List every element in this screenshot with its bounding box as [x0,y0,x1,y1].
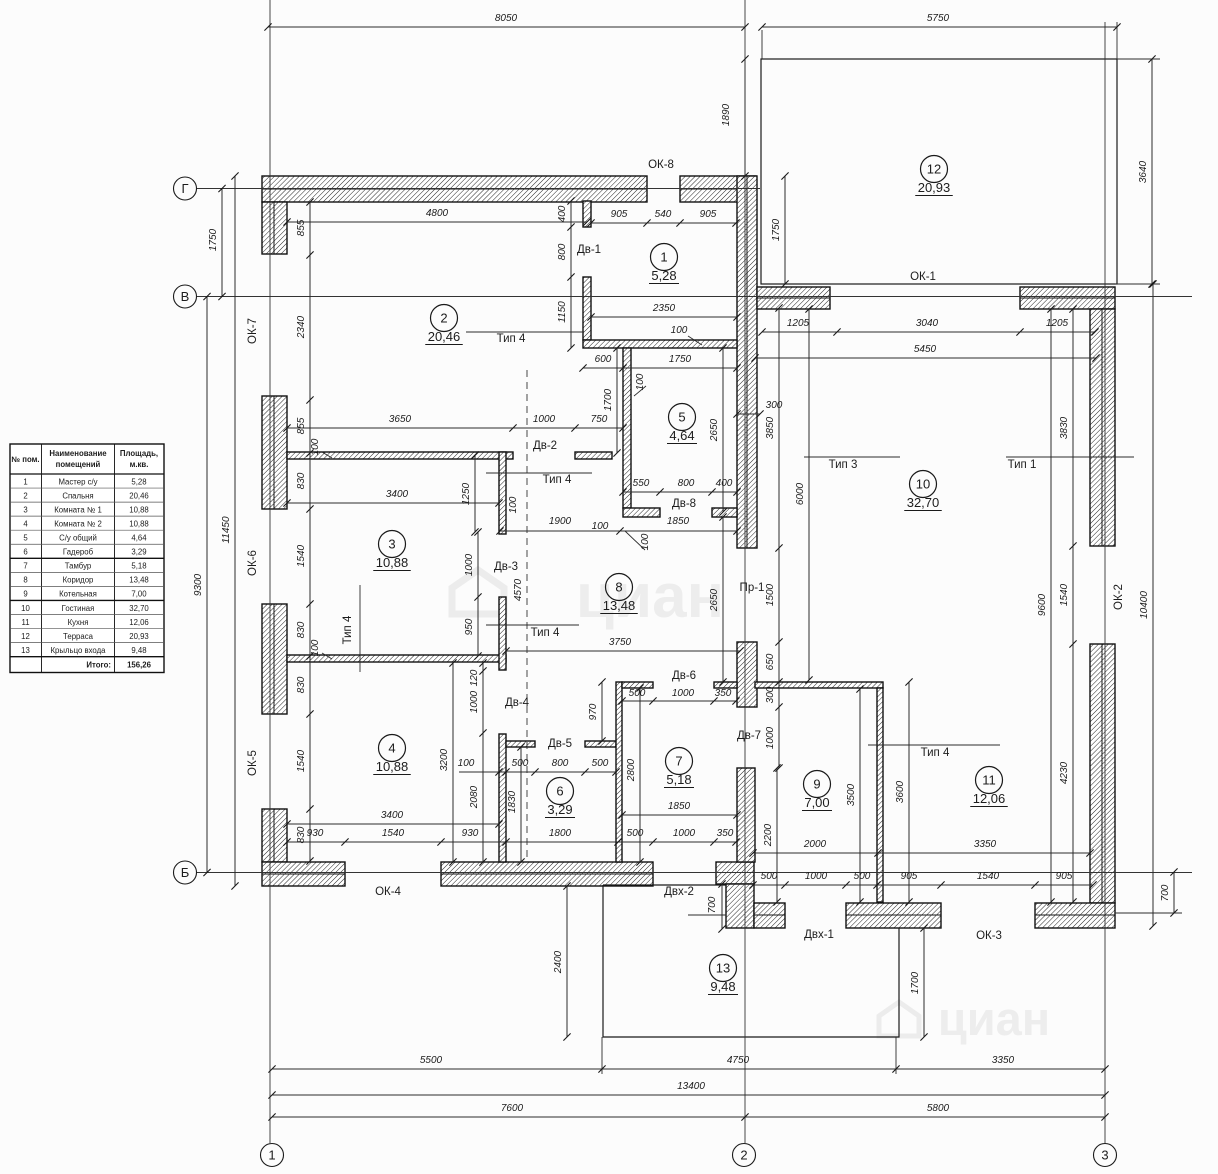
svg-text:800: 800 [557,243,568,260]
svg-text:700: 700 [1160,884,1171,901]
svg-text:Гостиная: Гостиная [62,604,95,613]
svg-text:ОК-4: ОК-4 [375,886,401,898]
svg-text:2650: 2650 [709,418,720,442]
svg-text:1: 1 [660,250,667,265]
svg-text:11450: 11450 [221,516,232,544]
svg-text:32,70: 32,70 [129,604,149,613]
svg-text:970: 970 [588,703,599,720]
svg-text:4570: 4570 [513,578,524,601]
svg-text:1800: 1800 [549,828,572,839]
svg-text:830: 830 [296,472,307,489]
svg-text:700: 700 [707,896,718,913]
svg-text:20,46: 20,46 [129,491,149,500]
svg-text:3850: 3850 [765,416,776,439]
svg-text:5: 5 [23,534,28,543]
svg-text:Г: Г [181,181,188,196]
svg-text:9,48: 9,48 [131,646,146,655]
svg-text:3600: 3600 [895,780,906,803]
svg-text:13400: 13400 [677,1081,705,1092]
svg-text:2080: 2080 [469,785,480,809]
svg-text:Тип 4: Тип 4 [543,474,572,486]
svg-text:4: 4 [23,519,28,528]
svg-text:156,26: 156,26 [127,661,152,670]
svg-text:100: 100 [310,438,321,455]
svg-text:ОК-8: ОК-8 [648,159,674,171]
svg-text:ОК-1: ОК-1 [910,271,936,283]
svg-text:11: 11 [982,773,996,788]
svg-text:500: 500 [761,871,778,882]
svg-text:Терраса: Терраса [63,632,94,641]
svg-text:1000: 1000 [464,553,475,576]
svg-text:2: 2 [23,491,27,500]
svg-text:12: 12 [927,162,941,177]
svg-text:1540: 1540 [296,544,307,567]
svg-text:Итого:: Итого: [86,661,111,670]
svg-text:Котельная: Котельная [59,590,97,599]
svg-text:1205: 1205 [1046,318,1069,329]
svg-text:500: 500 [854,871,871,882]
svg-text:100: 100 [310,639,321,656]
svg-text:100: 100 [458,758,475,769]
svg-text:Дв-7: Дв-7 [737,730,761,742]
svg-text:Тип 4: Тип 4 [342,615,354,644]
svg-text:6000: 6000 [795,482,806,505]
svg-text:3400: 3400 [386,489,409,500]
svg-text:5,28: 5,28 [131,477,146,486]
svg-text:2200: 2200 [763,823,774,847]
svg-text:Дв-1: Дв-1 [577,244,601,256]
svg-text:10: 10 [21,604,30,613]
svg-text:Тамбур: Тамбур [65,562,92,571]
svg-text:3640: 3640 [1138,160,1149,183]
svg-text:5,18: 5,18 [666,772,691,787]
svg-text:2400: 2400 [553,950,564,974]
svg-text:ОК-2: ОК-2 [1113,584,1125,610]
svg-text:950: 950 [464,618,475,635]
svg-text:циан: циан [576,562,724,631]
svg-text:м.кв.: м.кв. [130,460,149,469]
svg-text:13,48: 13,48 [129,576,149,585]
svg-text:5,28: 5,28 [651,268,676,283]
svg-text:6: 6 [556,784,563,799]
svg-text:3500: 3500 [846,783,857,806]
svg-text:1500: 1500 [765,583,776,606]
svg-text:1750: 1750 [208,228,219,251]
svg-text:13: 13 [21,646,30,655]
svg-text:540: 540 [655,209,672,220]
svg-text:20,46: 20,46 [428,329,461,344]
svg-text:830: 830 [296,621,307,638]
svg-text:7,00: 7,00 [131,590,147,599]
svg-text:10400: 10400 [1139,591,1150,619]
svg-text:5450: 5450 [914,344,937,355]
svg-text:1890: 1890 [721,103,732,126]
svg-text:830: 830 [296,676,307,693]
svg-text:1900: 1900 [549,516,572,527]
svg-text:1540: 1540 [1059,583,1070,606]
svg-text:3: 3 [388,537,395,552]
svg-text:4230: 4230 [1059,761,1070,784]
svg-text:2650: 2650 [709,588,720,612]
svg-text:4,64: 4,64 [131,534,147,543]
svg-text:1850: 1850 [668,801,691,812]
svg-text:Комната № 1: Комната № 1 [54,505,102,514]
svg-text:ОК-3: ОК-3 [976,930,1002,942]
svg-text:Тип 3: Тип 3 [829,459,858,471]
svg-text:13: 13 [716,961,730,976]
svg-text:400: 400 [557,205,568,222]
svg-text:1: 1 [23,477,27,486]
svg-text:3350: 3350 [974,839,997,850]
svg-text:1205: 1205 [787,318,810,329]
svg-text:2000: 2000 [803,839,827,850]
svg-text:2: 2 [740,1148,747,1163]
svg-text:1250: 1250 [461,482,472,505]
svg-text:650: 650 [765,653,776,670]
svg-text:Крыльцо входа: Крыльцо входа [51,646,107,655]
svg-text:600: 600 [595,354,612,365]
svg-text:Пр-1: Пр-1 [740,582,765,594]
svg-text:8050: 8050 [495,13,518,24]
svg-text:7600: 7600 [501,1103,524,1114]
svg-text:1000: 1000 [765,726,776,749]
svg-text:930: 930 [307,828,324,839]
svg-text:300: 300 [766,400,783,411]
svg-text:100: 100 [592,521,609,532]
svg-text:1700: 1700 [603,388,614,411]
svg-text:12,06: 12,06 [129,618,149,627]
svg-text:2340: 2340 [296,315,307,339]
svg-text:3: 3 [1101,1148,1108,1163]
svg-text:Дв-5: Дв-5 [548,738,572,750]
svg-text:400: 400 [716,478,733,489]
svg-text:Тип 1: Тип 1 [1008,459,1037,471]
svg-text:5750: 5750 [927,13,950,24]
svg-text:Дв-2: Дв-2 [533,440,557,452]
svg-text:1000: 1000 [805,871,828,882]
svg-text:Тип 4: Тип 4 [497,333,526,345]
svg-text:3650: 3650 [389,414,412,425]
svg-text:4800: 4800 [426,208,449,219]
svg-text:100: 100 [508,496,519,513]
svg-text:1750: 1750 [771,218,782,241]
svg-text:4: 4 [388,741,395,756]
svg-text:1540: 1540 [977,871,1000,882]
svg-text:Комната № 2: Комната № 2 [54,519,102,528]
svg-text:550: 550 [633,478,650,489]
svg-text:750: 750 [591,414,608,425]
svg-text:Тип 4: Тип 4 [531,627,560,639]
svg-text:Гадероб: Гадероб [63,548,94,557]
svg-text:2800: 2800 [626,758,637,782]
svg-text:2: 2 [440,311,447,326]
svg-text:1540: 1540 [296,749,307,772]
svg-text:1850: 1850 [667,516,690,527]
svg-text:1: 1 [268,1148,275,1163]
svg-text:7,00: 7,00 [804,795,829,810]
svg-text:1540: 1540 [382,828,405,839]
svg-text:20,93: 20,93 [129,632,149,641]
svg-text:Площадь,: Площадь, [120,449,158,458]
svg-text:855: 855 [296,219,307,236]
svg-text:9: 9 [813,777,820,792]
svg-text:9,48: 9,48 [710,979,735,994]
svg-text:5: 5 [678,410,685,425]
svg-text:300: 300 [765,686,776,703]
svg-text:800: 800 [678,478,695,489]
svg-text:№ пом.: № пом. [11,455,39,464]
svg-text:500: 500 [627,828,644,839]
svg-text:10: 10 [916,477,930,492]
svg-text:Наименование: Наименование [49,449,107,458]
svg-text:Дв-8: Дв-8 [672,498,696,510]
svg-text:1000: 1000 [469,690,480,713]
svg-text:1830: 1830 [507,790,518,813]
svg-text:905: 905 [700,209,717,220]
svg-text:5800: 5800 [927,1103,950,1114]
svg-text:Коридор: Коридор [63,576,94,585]
svg-text:10,88: 10,88 [129,505,149,514]
svg-text:3400: 3400 [381,810,404,821]
svg-text:9300: 9300 [193,573,204,596]
svg-text:9: 9 [23,590,27,599]
svg-text:1000: 1000 [672,688,695,699]
svg-text:800: 800 [552,758,569,769]
svg-text:4750: 4750 [727,1055,750,1066]
svg-text:10,88: 10,88 [376,555,409,570]
svg-text:Тип 4: Тип 4 [921,747,950,759]
svg-text:3750: 3750 [609,637,632,648]
svg-text:32,70: 32,70 [907,495,940,510]
svg-text:11: 11 [21,618,29,627]
svg-text:4,64: 4,64 [669,428,694,443]
svg-text:Дв-3: Дв-3 [494,561,518,573]
svg-text:2350: 2350 [652,303,676,314]
svg-text:855: 855 [296,417,307,434]
svg-text:1150: 1150 [557,301,568,323]
svg-text:1750: 1750 [669,354,692,365]
svg-text:3200: 3200 [439,748,450,771]
svg-text:500: 500 [592,758,609,769]
svg-text:1700: 1700 [910,971,921,994]
svg-text:Мастер с/у: Мастер с/у [58,477,97,486]
svg-text:20,93: 20,93 [918,180,951,195]
svg-text:12,06: 12,06 [973,791,1006,806]
svg-text:ОК-7: ОК-7 [247,318,259,344]
svg-text:Дв-4: Дв-4 [505,697,530,709]
svg-text:830: 830 [296,826,307,843]
svg-text:3040: 3040 [916,318,939,329]
svg-text:ОК-5: ОК-5 [247,750,259,776]
svg-text:Б: Б [181,865,190,880]
svg-text:350: 350 [715,688,732,699]
svg-text:ОК-6: ОК-6 [247,550,259,576]
svg-text:5500: 5500 [420,1055,443,1066]
svg-text:6: 6 [23,548,27,557]
svg-text:3350: 3350 [992,1055,1015,1066]
svg-text:7: 7 [23,562,27,571]
svg-text:5,18: 5,18 [131,562,146,571]
svg-text:1000: 1000 [673,828,696,839]
svg-text:Кухня: Кухня [68,618,89,627]
svg-text:905: 905 [611,209,628,220]
svg-text:1000: 1000 [533,414,556,425]
svg-text:3,29: 3,29 [131,548,146,557]
svg-text:Двх-1: Двх-1 [804,929,834,941]
svg-text:500: 500 [512,758,529,769]
svg-text:120: 120 [469,669,480,686]
svg-text:7: 7 [675,754,682,769]
svg-text:8: 8 [23,576,27,585]
svg-text:Двх-2: Двх-2 [664,886,694,898]
svg-text:930: 930 [462,828,479,839]
svg-text:Дв-6: Дв-6 [672,670,696,682]
svg-text:8: 8 [615,580,622,595]
svg-text:Спальня: Спальня [62,491,93,500]
svg-text:10,88: 10,88 [129,519,149,528]
svg-text:В: В [181,289,190,304]
svg-text:905: 905 [1056,871,1073,882]
svg-text:350: 350 [717,828,734,839]
svg-text:12: 12 [21,632,30,641]
svg-text:помещений: помещений [56,460,101,469]
svg-text:100: 100 [640,533,651,550]
svg-text:3830: 3830 [1059,416,1070,439]
svg-text:С/у общий: С/у общий [59,534,97,543]
svg-text:циан: циан [938,992,1050,1045]
svg-text:9600: 9600 [1037,593,1048,616]
svg-text:100: 100 [671,325,688,336]
svg-text:10,88: 10,88 [376,759,409,774]
svg-text:3,29: 3,29 [547,802,572,817]
svg-text:13,48: 13,48 [603,598,636,613]
svg-text:3: 3 [23,505,27,514]
svg-text:500: 500 [629,688,646,699]
